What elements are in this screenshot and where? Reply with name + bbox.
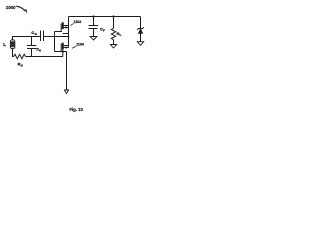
svg-text:0: 0 [39,49,41,53]
zener diode [137,27,144,41]
svg-text:1104: 1104 [76,42,84,46]
wire top rail [69,16,141,18]
svg-text:L: L [120,33,122,37]
wire gate input [44,36,69,38]
ground under RL [110,45,116,49]
ground under CF [90,37,97,41]
wire right branch from rail [140,17,142,29]
capacitor C0 [27,37,41,57]
ground under zener [137,42,143,46]
reference arrow [16,6,27,13]
figure reference 1000 [6,5,16,11]
node RL junction [112,15,114,17]
svg-text:1102: 1102 [74,20,82,24]
transistor 1102 [55,20,82,33]
node output junction [62,51,64,53]
svg-text:F: F [103,28,105,32]
wire top of crystal box [13,37,41,41]
capacitor CG [31,30,43,41]
wire bottom of crystal box [26,56,63,58]
svg-text:G: G [35,32,38,36]
wire left gate rail [54,32,56,52]
svg-text:S: S [21,63,23,67]
wire inductor bottom lead [13,48,14,57]
arrow open arrowhead [64,90,68,94]
resistor Rs [14,54,26,67]
svg-text:Fig. 10: Fig. 10 [69,107,83,112]
wire output to bottom [62,52,64,57]
svg-text:L: L [3,42,6,47]
inductor L [3,40,15,49]
transistor 1104 [61,42,84,52]
capacitor CF [89,17,106,37]
resistor RL [111,17,121,45]
svg-text:1000: 1000 [6,5,16,11]
wire output drop [66,52,68,91]
wire output node [55,51,67,53]
wire drain rail [68,17,70,48]
node CF junction [92,15,94,17]
node drain junction [68,36,70,38]
